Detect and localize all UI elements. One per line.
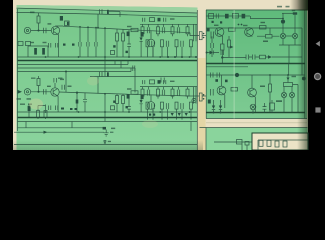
junction bold dot mid rail — [221, 56, 223, 58]
component blob B1240 — [158, 80, 161, 84]
wire x288.7 bus to rail — [288, 64, 290, 76]
diode D207 — [219, 106, 222, 110]
wire J101 to T101 base — [31, 30, 52, 32]
capacitor C207 — [263, 107, 267, 110]
arrow on bus y132.2 — [44, 131, 48, 134]
label smudge near R102 — [30, 42, 34, 43]
photo paper base (cream) — [13, 0, 308, 150]
capacitor C204 — [253, 55, 256, 60]
resistor R104 — [60, 16, 63, 21]
capacitor C102 — [100, 9, 103, 14]
wire from C102 to corner — [109, 12, 120, 17]
resistor R202 — [229, 28, 236, 32]
left box top border line B — [17, 12, 198, 16]
capacitor C205 on y75 — [211, 73, 214, 78]
transistor T205 — [248, 88, 257, 97]
resistor R204 — [221, 44, 225, 50]
label smudge 200 — [276, 100, 282, 102]
android home circle — [315, 73, 321, 79]
capacitor C1261 — [166, 103, 168, 109]
right branch wire to bus — [293, 85, 299, 113]
label smudge x129 — [127, 26, 132, 27]
resistor R302 — [245, 142, 249, 146]
android back triangle — [316, 41, 320, 47]
component blob B1040 — [158, 18, 161, 22]
wire between D201 D202 — [286, 35, 293, 37]
rail wire y121.5 — [18, 121, 198, 123]
transistor T122 — [147, 102, 155, 110]
thick bottom bus y112.5 — [206, 112, 305, 114]
paper stain near input ch2 — [29, 99, 43, 110]
PSU component R305 — [275, 141, 279, 147]
capacitor C1251 — [162, 90, 164, 96]
phone screen background — [0, 0, 325, 150]
capacitor C108 at bus end — [133, 66, 135, 72]
feedback wire vertical b — [87, 27, 89, 42]
rail wire y66.8 — [206, 66, 248, 68]
label smudge 1,25 — [263, 41, 268, 43]
component bold marks y44 — [63, 44, 66, 46]
junction dots rail y57 — [45, 56, 47, 58]
power supply box PSU — [252, 133, 308, 150]
input jack J101 — [24, 27, 30, 33]
transistor T102 — [147, 39, 155, 47]
component blob B202 — [242, 14, 246, 19]
capacitor C1250 — [147, 90, 149, 96]
resistor R1040 — [150, 18, 155, 22]
capacitor C1050 — [147, 27, 149, 33]
cream paper wedge above left box — [13, 0, 198, 8]
junction dots on signal wire — [79, 26, 81, 28]
frame vertical stubs below rail — [26, 122, 72, 128]
junction dots rail y112 — [45, 111, 47, 113]
resistor R205 — [266, 35, 273, 39]
diode DC between rails — [185, 113, 188, 116]
junction node R101/wire — [38, 30, 40, 32]
resistor R208 — [231, 88, 238, 92]
resistor R103 — [42, 48, 45, 55]
long vertical wire x105 — [97, 14, 99, 28]
darker band at left box top — [17, 8, 198, 17]
resistor R101 — [37, 16, 40, 23]
component blob B201 — [225, 14, 229, 19]
feedback wire vertical a — [79, 27, 81, 42]
resistor R203 — [228, 40, 231, 47]
distribution wire y86.6 — [140, 86, 197, 88]
capacitor C122 polarity tick — [107, 72, 109, 76]
distribution wire y24.3 — [140, 23, 197, 25]
resistor R1052 — [171, 27, 174, 34]
T101 emitter wire — [58, 35, 60, 57]
vertical wire x302 — [301, 28, 303, 75]
resistor R1252 — [171, 89, 174, 96]
resistor R124 — [62, 85, 65, 90]
capacitor C206 on y75 — [217, 73, 220, 78]
wire stub R136 — [28, 104, 30, 118]
T101 collector wire — [56, 25, 64, 27]
fuse F201 — [209, 14, 214, 19]
ground symbol GND1 — [104, 133, 109, 136]
right box right border — [304, 10, 306, 119]
left box right border — [196, 10, 198, 150]
wire J102 to T121 — [31, 91, 51, 93]
resistor R301 — [237, 140, 243, 145]
signal wire middle run — [63, 26, 190, 33]
light green band below cream wedge — [17, 5, 198, 13]
PSU component R303 — [259, 140, 263, 146]
capacitor C1040 — [143, 18, 145, 22]
capacitor C128 — [49, 106, 51, 111]
rail wire y75 — [206, 74, 305, 76]
feedback wire vertical c — [76, 93, 78, 112]
shadow right edge — [297, 0, 308, 150]
label smudge row A0 — [170, 18, 175, 19]
electrolytic blob CE101 — [127, 32, 130, 37]
capacitor C202 — [211, 43, 214, 48]
vertical wire pair near gap 2 — [194, 87, 197, 104]
diode DB between rails — [178, 113, 181, 116]
capacitor C121 — [44, 89, 47, 94]
capacitor C1041 — [164, 18, 166, 22]
resistor R116 — [18, 42, 23, 46]
channel A base wire y28 — [206, 27, 302, 29]
capacitor C1051 — [162, 27, 164, 33]
bus wire y71.5 — [18, 71, 132, 73]
label smudge 560 b — [27, 98, 32, 100]
rail wire y57 — [18, 56, 198, 58]
capacitor C1262 — [181, 103, 183, 109]
resistor R121 — [37, 79, 40, 86]
faint mid-band line — [206, 122, 307, 124]
transistor T121 — [51, 88, 59, 96]
junction dots on bus — [213, 112, 215, 114]
T121 emitter wire — [57, 96, 59, 112]
vertical wire x191 to bus — [190, 122, 192, 132]
resistor R115 — [131, 28, 138, 31]
label smudge above R211 — [292, 76, 297, 77]
capacitor C1241 — [164, 80, 166, 84]
thick wire segment to bus corner — [222, 58, 246, 64]
arrow mark on stem — [287, 78, 290, 81]
junction dots between T201 T202 — [238, 24, 240, 26]
resistor R211 — [284, 83, 293, 87]
rail wire y112 — [18, 111, 198, 113]
transistor T204 — [217, 86, 226, 95]
capacitor C112 — [87, 42, 89, 47]
T205 emitter wire — [254, 97, 256, 113]
capacitor C1052 — [177, 27, 179, 33]
bus end verticals — [115, 61, 135, 93]
label smudge row A2 — [170, 81, 175, 82]
component row marks above rail — [61, 108, 64, 110]
capacitor C129 — [56, 106, 58, 111]
left box left border — [17, 9, 19, 131]
label smudge above T201 — [214, 25, 219, 26]
diode lamp D204 — [281, 92, 286, 97]
lower horizontal border y127.5 — [200, 127, 308, 129]
right box left border — [205, 10, 207, 119]
resistor R105 — [116, 33, 119, 41]
resistor R126 — [122, 96, 125, 104]
signal bend to connector ch2 — [190, 95, 199, 97]
bus wire y127.8 — [18, 127, 105, 129]
component blob left edge chB — [208, 100, 211, 104]
feedback wire vertical d — [84, 93, 86, 112]
vertical wire x207.5 bottom — [205, 128, 207, 151]
label smudge x129 ch2 — [127, 88, 132, 89]
label smudges on cream above right box — [277, 6, 282, 8]
resistor R1260 — [146, 102, 149, 109]
PSU component R306 — [283, 141, 287, 147]
feedback wire vertical e — [95, 28, 97, 42]
capacitor C122 — [100, 72, 103, 77]
T121 collector wire — [54, 83, 56, 88]
bias network frame wire — [28, 46, 48, 57]
resistor R117 — [26, 42, 31, 46]
wire y142 bottom — [214, 141, 252, 143]
input jack J102 — [24, 89, 30, 95]
small ground marks y141 — [104, 140, 107, 141]
resistor R106 — [122, 33, 125, 41]
label smudge left of T101 — [48, 23, 52, 24]
resistor R1053 — [186, 27, 189, 34]
marks near rail ch2 — [126, 106, 128, 108]
capacitor C101 — [44, 28, 47, 33]
component blob B203 — [207, 28, 210, 31]
bus wire y68 — [18, 67, 136, 69]
electrolytic blob CE102 — [141, 32, 144, 37]
resistor R135 — [131, 91, 138, 94]
junction R121 — [38, 91, 40, 93]
diode D101 — [140, 38, 143, 41]
bus wire y76 — [90, 76, 197, 78]
stem wire from rail to R211 — [287, 75, 289, 83]
D202 vertical wires — [279, 39, 301, 64]
left box top border line A — [17, 8, 198, 13]
arrow mark mid rail — [268, 55, 272, 59]
resistor R1262 — [175, 102, 178, 109]
junction dot x96 — [95, 27, 97, 29]
diode DA between rails — [171, 113, 174, 116]
PSU inner line — [258, 139, 308, 141]
right box bottom border — [206, 118, 307, 120]
junction dots on supply — [282, 18, 284, 20]
vertical wire pair near gap 0 — [194, 24, 197, 41]
resistor R122 — [37, 111, 40, 118]
diode lamp D202 — [292, 33, 297, 38]
paper stain lower mid — [142, 120, 158, 128]
left schematic green field — [17, 1, 198, 150]
capacitor C1260 — [152, 103, 154, 109]
transistor T202 — [245, 28, 254, 37]
thick rail wire y60.5 — [18, 60, 198, 62]
signal wire bend to connector — [190, 33, 199, 36]
resistor R1061 — [161, 40, 164, 47]
capacitor C113 — [95, 42, 97, 47]
small marks second row — [212, 21, 214, 23]
vertical wire x293 — [250, 13, 295, 33]
paper yellow streak in gap — [198, 58, 206, 150]
electrolytic blob CE121 — [127, 94, 130, 99]
electrolytic cap CE202 — [211, 89, 214, 96]
long vertical wire x105 ch2 — [97, 77, 99, 94]
resistor R1051 — [157, 27, 160, 34]
transistor T123 near gap — [192, 98, 196, 102]
right box top border — [206, 9, 307, 11]
resistor R1240 — [150, 80, 155, 84]
junction dots signal ch2 — [76, 92, 78, 94]
capacitor C111 — [79, 42, 81, 47]
top supply wire y16 — [206, 15, 250, 17]
marks near rail ch1 — [126, 51, 128, 53]
capacitor bold pair x222 — [221, 50, 224, 55]
electrolytic cap CE201 — [211, 32, 214, 39]
junction dots y75 right — [287, 74, 289, 76]
label smudges under bus — [31, 78, 36, 79]
label smudge 383 — [260, 86, 265, 88]
label smudge 560 a — [17, 98, 22, 100]
lamp L201 — [250, 104, 256, 110]
junction cluster marks x150 — [149, 114, 151, 116]
resistor R139 near rail — [111, 106, 115, 110]
shadow bottom edge — [13, 140, 203, 150]
transistor blob B204 — [235, 73, 239, 77]
resistor R1050 — [141, 27, 144, 34]
paper stain mid left — [87, 77, 99, 86]
diode D121 — [140, 100, 143, 103]
thick rail wire y117.5 — [18, 117, 198, 119]
label smudge above T202 — [243, 25, 248, 26]
transistor T201 — [215, 28, 224, 37]
D205 leg wires — [291, 87, 293, 113]
diode D203 — [210, 51, 214, 55]
pale crease vertical right box — [234, 10, 235, 119]
electrolytic blob CE122 — [141, 95, 144, 100]
capacitor C123 — [127, 107, 131, 110]
diode lamp D205 — [289, 92, 294, 97]
input arrow channel2 — [18, 90, 23, 94]
small blobs above T204 — [215, 79, 218, 82]
capacitor C1061 — [166, 41, 168, 47]
capacitor bold pair ch2 top — [161, 78, 164, 83]
junction dot and drop x66 — [65, 71, 67, 73]
shadow top-right corner — [290, 0, 308, 11]
thick bus y63.5 — [206, 63, 305, 65]
resistor R206 — [260, 26, 267, 30]
resistor R207 — [260, 55, 266, 59]
transistor T101 — [51, 26, 59, 34]
resistor R1062 — [175, 40, 178, 47]
diode lamp D201 — [280, 33, 285, 38]
resistor R1063 — [190, 40, 193, 47]
PSU wire stub — [257, 140, 259, 150]
label smudge ch2 — [20, 104, 25, 105]
bus wire y132.2 — [14, 131, 104, 133]
capacitor C1252 — [177, 90, 179, 96]
bus wire y64.5 — [18, 64, 129, 66]
bottom-right green field — [206, 128, 308, 150]
label smudge left of T121 — [47, 86, 51, 87]
resistor R1253 — [186, 89, 189, 96]
signal wire middle run ch2 — [59, 92, 190, 96]
resistor R201 — [232, 14, 238, 19]
resistor R1250 — [141, 89, 144, 96]
PSU component R304 — [267, 140, 271, 146]
resistor R123 — [44, 111, 47, 118]
component blob on right border — [302, 77, 306, 81]
capacitor C201 top — [216, 14, 219, 19]
diode D206 — [212, 106, 215, 110]
resistor R210 — [270, 103, 275, 110]
label smudge above R101 — [30, 12, 35, 14]
resistor R1060 — [146, 40, 149, 47]
label smudge right of bus end — [111, 128, 115, 130]
capacitor C203 — [246, 55, 249, 60]
capacitor C103 — [127, 44, 131, 47]
resistor R1251 — [157, 89, 160, 96]
capacitor C109 — [49, 43, 51, 48]
arrow trimmer mark — [230, 46, 234, 49]
long bottom wire y144.5 — [14, 144, 197, 146]
capacitor C110 — [56, 43, 58, 48]
connector CN102 across gap — [199, 93, 202, 101]
resistor R102 — [34, 48, 37, 55]
vertical wires below R301 R302 — [242, 144, 247, 150]
D204 leg wires — [283, 87, 285, 113]
transistor T203 top right — [293, 12, 297, 14]
resistor R136 bold — [28, 106, 31, 111]
junction blob at bus end — [103, 127, 106, 130]
connector CN101 across gap — [199, 32, 202, 40]
capacitor C102 polarity tick — [107, 10, 109, 14]
T204 emitter wire — [224, 95, 226, 108]
resistor R1263 — [190, 102, 193, 109]
capacitor C1240 — [143, 80, 145, 84]
capacitor C1062 — [181, 41, 183, 47]
resistor R119 near rail — [111, 51, 115, 55]
D201 vertical wires — [282, 39, 284, 45]
android recents square — [315, 107, 320, 112]
resistor R125 — [116, 96, 119, 104]
resistor R1261 — [161, 102, 164, 109]
resistor R209 — [269, 84, 272, 92]
capacitor C1060 — [152, 41, 154, 47]
right schematic green field — [206, 10, 307, 119]
wire top-right branch y18.5 — [250, 16, 252, 19]
